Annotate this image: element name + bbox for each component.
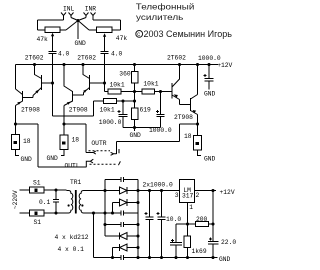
transistor Q1L collector — [35, 65, 42, 79]
connector OUTL riser — [86, 161, 90, 167]
svg-text:1k69: 1k69 — [192, 248, 207, 255]
capacitor C7 1000.0 a — [146, 191, 154, 258]
arrow Q2L emitter — [17, 102, 21, 105]
wire diode3 row — [105, 235, 138, 237]
svg-text:4.0: 4.0 — [58, 51, 70, 58]
resistor R8 mark — [14, 142, 16, 144]
transistor Q1R collector — [83, 65, 90, 79]
wire diode4 row — [113, 248, 139, 258]
wiper arrow right — [103, 33, 106, 37]
diode VD2 kd212 — [120, 199, 128, 206]
wire gnd rail bottom — [94, 257, 218, 259]
svg-text:GND: GND — [204, 155, 216, 162]
svg-text:INL: INL — [63, 5, 75, 12]
connector OUTR plug foot — [86, 152, 93, 154]
transistor Q2R 2T908 bar — [72, 91, 74, 102]
wire R9 to GND — [61, 150, 64, 156]
transistor Q3 emitter — [172, 95, 180, 105]
arrow Q2R emitter — [67, 102, 71, 105]
svg-text:2T908: 2T908 — [69, 106, 88, 113]
junction dots amp — [33, 63, 36, 66]
svg-text:10k1: 10k1 — [100, 107, 115, 114]
svg-text:3: 3 — [175, 192, 179, 199]
wire GND stub from input node — [77, 21, 79, 40]
svg-text:GND: GND — [130, 132, 142, 139]
capacitor C10 plus — [171, 239, 174, 242]
arrow Q4 emitter — [193, 110, 197, 113]
svg-text:2T908: 2T908 — [174, 114, 193, 121]
svg-text:+12V: +12V — [217, 62, 232, 69]
capacitor C4 plus sign — [156, 110, 159, 113]
svg-text:GND: GND — [204, 91, 216, 98]
wire diode1 out row — [127, 190, 180, 192]
connector OUTR fork left — [93, 151, 96, 154]
capacitor C10 10.0 — [170, 224, 182, 258]
fuse S1 top body — [30, 187, 45, 193]
transistor Q2L collector diag — [16, 89, 23, 95]
capacitor C1 4.0 plates — [49, 52, 57, 54]
resistor R3 360 body — [132, 72, 139, 84]
svg-text:18: 18 — [184, 133, 192, 140]
svg-text:TR1: TR1 — [70, 179, 82, 186]
svg-text:GND: GND — [21, 156, 33, 163]
svg-text:47k: 47k — [116, 35, 128, 42]
wire secondary bottom — [86, 212, 139, 214]
capacitor C4 1000.0 right — [157, 92, 165, 128]
transistor Q2R collector diag — [64, 65, 73, 92]
capacitor C3 plus sign — [118, 110, 121, 113]
wire U1 output — [195, 190, 217, 192]
transistor Q1R base lead — [90, 82, 105, 84]
potentiometer R2 47k body — [97, 27, 113, 33]
node input common diagonals — [66, 18, 89, 31]
wire left feedback loop — [53, 101, 136, 116]
connector OUTR fork right — [111, 152, 117, 155]
capacitor C9 22.0 — [208, 242, 219, 258]
wire +12V column — [212, 191, 214, 242]
resistor R8 18 body — [12, 135, 20, 150]
svg-text:2: 2 — [196, 192, 200, 199]
capacitor 0.1 bridge row2 — [121, 211, 124, 216]
diode VD1 kd212 — [120, 187, 128, 194]
svg-text:360: 360 — [119, 71, 131, 78]
svg-text:22.0: 22.0 — [221, 239, 236, 246]
svg-text:OUTL: OUTL — [65, 162, 80, 169]
wire R8 to GND — [16, 150, 20, 156]
wire bridge left vertical — [104, 180, 106, 237]
wire C2 to base node Q1R — [104, 54, 106, 92]
connector XS2 INR prongs — [84, 13, 96, 21]
resistor R12 200 body — [196, 222, 209, 227]
svg-text:0.1: 0.1 — [39, 199, 51, 206]
svg-text:2003 Семынин Игорь: 2003 Семынин Игорь — [144, 29, 233, 39]
transistor Q1L emitter — [33, 88, 42, 98]
svg-text:10k1: 10k1 — [143, 81, 158, 88]
wire fuse bottom to TR1 — [44, 212, 67, 214]
potentiometer R2 47k right loop — [89, 20, 121, 30]
svg-text:1000.0: 1000.0 — [99, 119, 122, 126]
wire OUTL dashed cable — [90, 163, 117, 165]
junction dots psu — [54, 188, 57, 191]
arrow Q1R emitter — [83, 89, 87, 93]
resistor R7 619 body — [132, 108, 139, 120]
fuse S1 top mark — [35, 189, 37, 191]
svg-text:619: 619 — [140, 107, 152, 114]
svg-text:+12V: +12V — [220, 189, 235, 196]
wire wiper right to C2 — [104, 36, 106, 52]
wire C1 to base node Q1L — [52, 54, 54, 117]
wire mains top — [20, 189, 30, 191]
potentiometer R1 47k left loop — [38, 20, 67, 30]
svg-text:~220V: ~220V — [12, 190, 19, 209]
wire +12V rail y=64.5 — [16, 64, 219, 66]
wire R10 to GND — [198, 150, 202, 156]
regulator U1 LM317 body — [180, 180, 195, 203]
transistor Q2L base lead — [23, 97, 34, 99]
transistor Q4 emitter — [191, 111, 198, 125]
svg-text:10k1: 10k1 — [110, 81, 125, 88]
svg-text:2x1000.0: 2x1000.0 — [143, 182, 173, 189]
capacitor C7 plus — [145, 212, 148, 215]
wire OUTR dashed cable — [89, 150, 111, 152]
connector OUTL fork — [90, 159, 93, 163]
transistor Q3 collector — [172, 65, 180, 88]
wire right output node — [180, 115, 198, 142]
wire OUTR jack riser — [117, 142, 180, 154]
transistor Q2R base lead — [73, 94, 84, 96]
svg-text:1: 1 — [189, 204, 193, 211]
fuse S1 bottom body — [30, 210, 45, 216]
svg-text:GND: GND — [219, 256, 231, 263]
transformer TR1 primary winding — [67, 191, 73, 214]
capacitor 0.1 bridge row1 — [121, 177, 124, 182]
svg-text:S1: S1 — [33, 180, 41, 187]
transistor Q4 2T908 bar — [190, 98, 192, 111]
diode VD3 kd212 — [120, 233, 128, 240]
wire cap3 row — [105, 224, 138, 226]
capacitor C6 0.1 across mains — [53, 190, 59, 213]
svg-text:S1: S1 — [34, 219, 42, 226]
svg-text:4.0: 4.0 — [111, 51, 123, 58]
wire secondary top to bridge — [86, 190, 120, 192]
connector XS1 INL prongs — [61, 13, 74, 21]
diode VD4 kd212 — [120, 244, 128, 251]
transistor Q3 base lead — [161, 91, 173, 93]
transistor Q1R 2T602 bar — [89, 75, 91, 90]
transistor Q2L emitter — [16, 101, 23, 124]
transformer TR1 secondary winding — [79, 191, 85, 214]
transformer winding dot secondary — [81, 204, 83, 206]
connector OUTL end tick — [118, 161, 120, 165]
svg-text:18: 18 — [72, 137, 80, 144]
wire INL/INR top bus y=20 — [38, 19, 121, 21]
node A junction dot — [76, 19, 79, 22]
wire output node left 18 — [16, 124, 39, 135]
transistor Q2R emitter — [64, 101, 73, 124]
resistor R3 360 stub — [134, 65, 136, 92]
wire 619 to gnd node — [123, 120, 161, 132]
capacitor C8 1000.0 b — [158, 191, 166, 258]
wire fuse to TR1 — [44, 189, 67, 191]
capacitor C8 plus — [157, 212, 160, 215]
wire rail left drop to Q2L — [15, 65, 17, 90]
svg-text:c: c — [137, 32, 140, 38]
svg-text:200: 200 — [196, 216, 208, 223]
transistor Q4 base lead — [180, 104, 191, 106]
svg-text:GND: GND — [47, 155, 59, 162]
transformer winding dot primary — [68, 204, 70, 206]
fuse S1 bottom mark — [35, 212, 37, 214]
transistor Q1R emitter — [84, 88, 90, 96]
transistor Q1L base lead — [42, 82, 53, 84]
wire wiper left to C1 — [52, 36, 54, 52]
wire adj row — [176, 223, 213, 225]
wire OUTL drop — [38, 124, 86, 167]
connector OUTR jack bar — [118, 149, 120, 153]
arrow Q1L emitter — [35, 90, 39, 94]
wire bridge cap1 row — [105, 179, 138, 181]
svg-text:10.0: 10.0 — [166, 216, 181, 223]
svg-text:18: 18 — [23, 138, 31, 145]
transistor Q2L 2T908 bar — [22, 91, 24, 102]
transistor Q4 collector — [191, 65, 198, 100]
svg-text:47k: 47k — [37, 36, 49, 43]
wire mains bottom — [20, 212, 30, 214]
resistor R10 mark — [196, 143, 198, 145]
resistor R4 10k1 body — [108, 89, 121, 94]
capacitor C9 plus — [209, 238, 212, 241]
svg-text:2T602: 2T602 — [25, 55, 44, 62]
svg-text:1000.0: 1000.0 — [149, 127, 172, 134]
capacitor 0.1 bridge row4 — [121, 255, 124, 260]
wiper arrow left — [51, 33, 54, 37]
resistor R5 10k1 body — [142, 89, 155, 94]
resistor R6 10k1 body — [104, 99, 117, 104]
wire OUTR drop — [85, 124, 87, 153]
capacitor C3 1000.0 left — [119, 101, 128, 128]
svg-text:317: 317 — [182, 193, 194, 200]
svg-text:4 x kd212: 4 x kd212 — [55, 234, 89, 241]
svg-text:усилитель: усилитель — [136, 13, 183, 22]
resistor R11 1k69 body — [184, 236, 191, 248]
resistor R9 mark — [63, 142, 65, 144]
wire feedback row y=91.5 — [105, 91, 173, 93]
wire 360 bottom to 619 — [134, 92, 136, 109]
wire diode2 row — [113, 203, 139, 214]
wire bridge right vertical — [137, 180, 139, 258]
transformer TR1 core — [75, 190, 77, 214]
svg-text:GND: GND — [75, 40, 87, 47]
wire output node mid 18 — [64, 124, 86, 135]
wire U1 adj pin1 — [187, 203, 189, 258]
transistor Q3 2T602 bar — [171, 83, 173, 99]
svg-text:INR: INR — [85, 5, 97, 12]
svg-text:2T908: 2T908 — [21, 107, 40, 114]
transistor Q1L 2T602 bar — [41, 75, 43, 90]
wire AC left drop to gnd rail — [93, 213, 95, 258]
capacitor 0.1 bridge row3 — [121, 222, 124, 227]
svg-text:2T602: 2T602 — [167, 55, 186, 62]
capacitor C2 4.0 plates — [101, 52, 109, 54]
svg-text:2T602: 2T602 — [77, 55, 96, 62]
svg-text:4 x 0.1: 4 x 0.1 — [58, 246, 85, 253]
potentiometer R1 47k body — [45, 27, 60, 33]
capacitor C5 plus sign — [204, 74, 207, 77]
svg-text:OUTR: OUTR — [91, 140, 106, 147]
capacitor C5 1000.0 power — [205, 65, 214, 90]
svg-text:Телефонный: Телефонный — [136, 3, 195, 12]
arrow Q3 emitter — [174, 94, 178, 97]
resistor R10 18 body — [194, 136, 202, 151]
resistor R9 18 body — [60, 135, 68, 150]
